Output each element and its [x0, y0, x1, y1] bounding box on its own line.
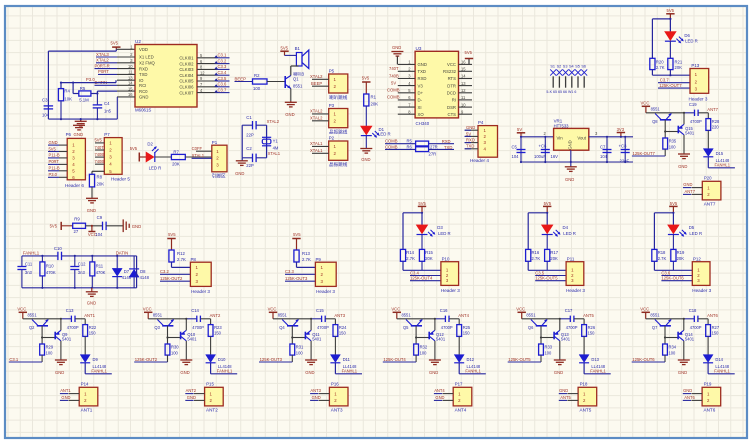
wire to R9: [61, 225, 72, 227]
junction dots (ANT3): [310, 318, 312, 320]
svg-text:CLKI07: CLKI07: [179, 90, 194, 95]
wire R1 to D1: [365, 106, 367, 126]
svg-text:5401: 5401: [62, 337, 72, 342]
wires P17 pins: [443, 393, 454, 395]
diode D10 LL4148: [206, 355, 216, 363]
resistor R7: [171, 154, 185, 159]
svg-text:RCI: RCI: [139, 83, 146, 88]
svg-text:125K-OUT2: 125K-OUT2: [160, 276, 183, 281]
svg-text:10K: 10K: [64, 97, 72, 102]
svg-text:P4: P4: [478, 120, 484, 125]
svg-text:P15: P15: [206, 382, 214, 387]
junction dots (ANT7): [683, 112, 685, 114]
svg-text:VCC: VCC: [516, 307, 525, 312]
svg-text:DSR: DSR: [447, 105, 456, 110]
svg-text:C3.7: C3.7: [660, 78, 670, 83]
wire resistors to header (D5): [653, 261, 655, 270]
svg-text:XTAL1: XTAL1: [192, 153, 205, 158]
ground (ANT4): [429, 359, 441, 361]
svg-text:GND: GND: [61, 395, 70, 400]
wire Q9 collector: [60, 319, 62, 331]
svg-text:GND: GND: [180, 370, 189, 375]
svg-text:2.7K: 2.7K: [177, 257, 186, 262]
svg-text:Q5: Q5: [403, 325, 409, 330]
svg-text:RI: RI: [452, 98, 456, 103]
resistor R9: [73, 223, 86, 228]
svg-text:DTR: DTR: [447, 83, 456, 88]
capacitor C19: [684, 112, 694, 114]
svg-text:100: 100: [296, 350, 304, 355]
svg-text:150: 150: [214, 331, 222, 336]
svg-text:P11: P11: [567, 256, 575, 261]
svg-text:Q8: Q8: [652, 119, 658, 124]
wire Q2 base: [41, 326, 43, 344]
svg-text:Header 3: Header 3: [316, 289, 335, 294]
svg-text:GND: GND: [466, 125, 475, 130]
svg-text:GND: GND: [565, 177, 574, 182]
junction dot (D6): [669, 18, 671, 20]
capacitor C14: [186, 318, 196, 320]
resistor R30: [165, 344, 170, 355]
diode D15 LL4148: [703, 149, 713, 157]
svg-text:C14: C14: [191, 308, 199, 313]
svg-text:125K-OUT3: 125K-OUT3: [285, 276, 308, 281]
wire D5 to R19: [672, 234, 674, 249]
svg-text:ANT4: ANT4: [458, 313, 469, 318]
svg-text:P19: P19: [704, 382, 712, 387]
svg-text:VCC: VCC: [641, 101, 650, 106]
svg-text:C3.4: C3.4: [410, 270, 420, 275]
svg-text:P13: P13: [691, 63, 699, 68]
svg-text:2.7K: 2.7K: [532, 256, 541, 261]
svg-text:100: 100: [669, 350, 677, 355]
svg-text:R5: R5: [407, 139, 413, 144]
svg-text:470K: 470K: [46, 270, 56, 275]
svg-text:ANT1: ANT1: [60, 388, 71, 393]
svg-text:D3: D3: [437, 225, 443, 230]
diode D9 LL4148: [80, 355, 90, 363]
svg-text:GND: GND: [361, 157, 370, 162]
svg-text:XTAL1: XTAL1: [268, 151, 281, 156]
svg-text:15: 15: [128, 86, 133, 91]
wire bottom rail U2: [48, 118, 117, 120]
svg-text:U2: U2: [135, 39, 141, 44]
svg-text:5V5: 5V5: [281, 46, 289, 51]
wire VCC rail (ANT4): [397, 318, 435, 320]
svg-text:5-K 65 65 66 W1 6: 5-K 65 65 66 W1 6: [546, 90, 576, 94]
junction dots (ANT1): [60, 318, 62, 320]
diode D11 LL4148: [330, 355, 340, 363]
svg-text:Header 3: Header 3: [441, 288, 460, 293]
resistor R4: [58, 89, 63, 101]
resistor R18: [652, 249, 657, 261]
svg-text:C3.3: C3.3: [218, 64, 228, 69]
svg-text:5V5: 5V5: [667, 8, 675, 13]
power 5V5 (U3 VCC): [468, 59, 470, 65]
svg-text:P0RT: P0RT: [49, 159, 60, 164]
wire filter right edge: [136, 256, 138, 288]
svg-text:R15: R15: [425, 250, 433, 255]
resistor R11: [91, 256, 93, 262]
resistor R23: [210, 319, 212, 325]
svg-text:740T: 740T: [389, 66, 399, 71]
svg-text:R10: R10: [46, 263, 54, 268]
svg-text:1n5: 1n5: [104, 109, 112, 114]
svg-text:150: 150: [463, 331, 471, 336]
wire input (ANT3): [291, 355, 293, 362]
svg-text:GND: GND: [429, 370, 438, 375]
power VCC tap: [91, 226, 93, 232]
svg-text:+C8: +C8: [619, 143, 627, 148]
svg-text:Y1: Y1: [273, 138, 279, 143]
svg-text:RXD: RXD: [139, 66, 148, 71]
svg-text:20K: 20K: [172, 162, 180, 167]
ic U2: [135, 45, 197, 108]
svg-text:8551: 8551: [650, 313, 660, 318]
svg-text:R35: R35: [669, 139, 677, 144]
wire Q14 collector: [683, 319, 685, 331]
svg-text:4700P: 4700P: [566, 325, 578, 330]
wire to U2 GND pin16: [116, 97, 118, 119]
svg-text:FANHL1: FANHL1: [342, 369, 358, 374]
svg-text:C1: C1: [246, 115, 252, 120]
svg-text:S3: S3: [563, 64, 568, 68]
diode D7: [116, 256, 118, 269]
wire D4 to R17: [546, 234, 548, 249]
svg-text:ANT2: ANT2: [206, 407, 218, 412]
svg-text:XTAL2: XTAL2: [310, 116, 323, 121]
VR1 ground rail: [521, 161, 633, 163]
svg-text:100: 100: [420, 350, 428, 355]
svg-text:5401: 5401: [187, 337, 197, 342]
wire R22 to D9: [84, 336, 86, 354]
wire Q3 base: [167, 326, 169, 344]
svg-text:Vin: Vin: [557, 136, 564, 141]
svg-text:U3: U3: [416, 46, 422, 51]
svg-text:GND: GND: [74, 132, 84, 137]
ground (crystal): [241, 158, 243, 161]
svg-text:X2 FMQ: X2 FMQ: [139, 61, 156, 66]
svg-text:Header 6: Header 6: [65, 183, 84, 188]
svg-text:4700P: 4700P: [67, 325, 79, 330]
capacitor C7: [606, 137, 608, 162]
transistor Q4: [287, 325, 298, 327]
capacitor C17: [560, 318, 570, 320]
svg-text:引脚区: 引脚区: [212, 173, 226, 180]
wire VCC rail (ANT6): [646, 318, 684, 320]
svg-text:C3.5: C3.5: [535, 270, 545, 275]
svg-text:R12: R12: [177, 251, 185, 256]
resistor R35: [663, 138, 668, 149]
svg-text:FANHL1: FANHL1: [590, 369, 606, 374]
svg-text:740B: 740B: [95, 159, 105, 164]
svg-text:Q6: Q6: [528, 325, 534, 330]
svg-text:R30: R30: [171, 345, 179, 350]
svg-text:125K-OUT4: 125K-OUT4: [383, 357, 406, 362]
svg-text:GND: GND: [559, 388, 568, 393]
U3 right pins: [459, 63, 473, 65]
led D4: [542, 225, 553, 234]
resistor R29: [40, 344, 45, 355]
svg-text:14: 14: [128, 81, 133, 86]
wire R24 to D11: [334, 336, 336, 354]
transistor Q13: [553, 332, 555, 340]
svg-text:5V: 5V: [466, 131, 471, 136]
diode D13 LL4148: [579, 355, 589, 363]
svg-text:R33: R33: [545, 345, 553, 350]
wire D14 out: [707, 363, 709, 374]
svg-text:5V5: 5V5: [293, 232, 301, 237]
svg-text:TXD: TXD: [139, 72, 148, 77]
led D5: [668, 225, 679, 234]
svg-text:20K: 20K: [97, 182, 105, 187]
svg-text:C11: C11: [25, 261, 33, 266]
svg-text:D2: D2: [147, 141, 153, 146]
svg-text:14: 14: [461, 74, 466, 79]
svg-text:P16: P16: [331, 382, 339, 387]
svg-text:5401: 5401: [685, 131, 695, 136]
svg-text:20K: 20K: [425, 256, 433, 261]
svg-text:5V5: 5V5: [95, 138, 103, 143]
svg-text:GND: GND: [418, 62, 427, 67]
svg-text:Header 3: Header 3: [191, 289, 210, 294]
svg-text:C3.6: C3.6: [218, 82, 228, 87]
wire R9 to C9: [86, 225, 103, 227]
pin S6: [583, 76, 585, 87]
svg-text:11: 11: [128, 70, 133, 75]
svg-text:VCC: VCC: [447, 62, 456, 67]
svg-text:C18: C18: [689, 308, 697, 313]
svg-text:V3: V3: [418, 83, 424, 88]
svg-text:ANT6: ANT6: [704, 407, 716, 412]
svg-text:GND: GND: [392, 45, 401, 50]
svg-text:CLKI06: CLKI06: [179, 85, 194, 90]
svg-text:5V: 5V: [391, 80, 396, 85]
svg-text:R25: R25: [463, 325, 471, 330]
wire Q7 base: [664, 326, 666, 344]
svg-text:RXD: RXD: [466, 138, 475, 143]
svg-text:FANHL1: FANHL1: [715, 163, 731, 168]
svg-text:GND: GND: [678, 370, 687, 375]
wire C9 to ground: [106, 225, 123, 227]
svg-text:5V5: 5V5: [130, 146, 138, 151]
svg-text:ANT6: ANT6: [707, 313, 718, 318]
ground (P6): [73, 124, 85, 126]
svg-text:GND: GND: [312, 395, 321, 400]
svg-text:LED R: LED R: [149, 165, 162, 170]
svg-text:125K-OUT5: 125K-OUT5: [535, 276, 558, 281]
svg-text:4148: 4148: [140, 275, 150, 280]
wire split (D5): [653, 213, 655, 250]
svg-text:GND: GND: [235, 171, 244, 176]
junction dots U2 osc: [60, 82, 62, 84]
svg-text:GND: GND: [305, 370, 314, 375]
resistor R27: [707, 319, 709, 325]
junction dot R9 row: [91, 225, 93, 227]
wire 5V5 rail to C3: [115, 49, 117, 51]
svg-text:GND: GND: [87, 300, 96, 305]
wire Q12 collector: [434, 319, 436, 331]
svg-text:RS232: RS232: [443, 69, 457, 74]
svg-text:27R: 27R: [430, 144, 438, 149]
svg-text:D11: D11: [343, 357, 351, 362]
svg-text:R24: R24: [339, 325, 347, 330]
svg-text:27: 27: [74, 229, 79, 234]
wire Q11 emitter to ground: [310, 341, 312, 360]
wire VCC rail (ANT5): [522, 318, 560, 320]
wire C4 bottom: [96, 108, 98, 119]
svg-text:R21: R21: [675, 59, 683, 64]
connector P6: [67, 138, 85, 179]
svg-text:740B: 740B: [389, 73, 399, 78]
svg-text:D+: D+: [418, 91, 424, 96]
svg-text:ANT5: ANT5: [560, 395, 571, 400]
svg-text:Header 3: Header 3: [566, 288, 585, 293]
svg-text:R34: R34: [669, 345, 677, 350]
pin S3: [565, 76, 567, 87]
svg-text:470K: 470K: [96, 270, 106, 275]
svg-text:TXD: TXD: [418, 69, 427, 74]
transistor Q10: [180, 332, 182, 340]
svg-text:5V5: 5V5: [50, 223, 58, 228]
svg-text:P14: P14: [81, 382, 89, 387]
svg-text:150: 150: [712, 331, 720, 336]
svg-text:125K-OUT2: 125K-OUT2: [135, 357, 158, 362]
svg-text:LED R: LED R: [689, 231, 702, 236]
wire D9 out: [84, 363, 86, 374]
svg-text:晶振跳线: 晶振跳线: [329, 129, 348, 136]
wire Q10 collector: [185, 319, 187, 331]
svg-text:C3.1: C3.1: [9, 357, 19, 362]
wire input (ANT1): [41, 355, 43, 362]
wire R5 left: [72, 83, 74, 94]
led D6: [665, 32, 676, 41]
wire input (ANT4): [415, 355, 417, 362]
transistor Q15: [677, 126, 679, 134]
svg-text:11: 11: [461, 95, 466, 100]
wire split (D6): [651, 19, 653, 58]
wire Q15 emitter to ground: [683, 135, 685, 154]
power 3V3 (VR1 out): [620, 133, 622, 137]
svg-text:5401: 5401: [561, 337, 571, 342]
capacitor C4: [93, 104, 103, 106]
svg-text:S1: S1: [550, 64, 555, 68]
U2 right pins CLKI01-CLKI07: [197, 57, 217, 59]
svg-text:13: 13: [461, 81, 466, 86]
svg-text:Vout: Vout: [577, 136, 586, 141]
svg-text:CLKI02: CLKI02: [179, 61, 194, 66]
svg-text:GND: GND: [435, 395, 444, 400]
svg-text:R28: R28: [712, 119, 720, 124]
svg-text:104: 104: [600, 154, 608, 159]
svg-text:D-: D-: [418, 98, 423, 103]
svg-text:R22: R22: [89, 325, 97, 330]
wire Q14 emitter to ground: [683, 341, 685, 360]
svg-text:C3.7: C3.7: [218, 87, 228, 92]
svg-text:LED R: LED R: [438, 231, 451, 236]
svg-text:5401: 5401: [685, 337, 695, 342]
svg-text:ANT7: ANT7: [685, 189, 696, 194]
svg-text:R13: R13: [302, 251, 310, 256]
capacitor C11: [21, 256, 23, 267]
wire VCC rail (ANT2): [148, 318, 186, 320]
wire R8 to ground: [91, 187, 93, 198]
svg-text:10: 10: [128, 64, 133, 69]
svg-text:16: 16: [461, 60, 466, 65]
wire D15 out: [707, 157, 709, 168]
svg-text:R31: R31: [296, 345, 304, 350]
svg-text:R26: R26: [588, 325, 596, 330]
svg-text:100: 100: [669, 144, 677, 149]
resistor R8: [92, 170, 104, 172]
svg-text:R29: R29: [46, 345, 54, 350]
svg-text:C15: C15: [316, 308, 324, 313]
ground (ANT7): [678, 153, 690, 155]
svg-text:5V5: 5V5: [418, 201, 426, 206]
svg-text:S4: S4: [569, 64, 574, 68]
svg-text:BEEP: BEEP: [311, 81, 322, 86]
svg-text:D13: D13: [591, 357, 599, 362]
svg-text:C3.4: C3.4: [218, 70, 228, 75]
svg-text:2.7K: 2.7K: [302, 257, 311, 262]
capacitor C16: [435, 318, 445, 320]
ground (ANT2): [180, 359, 192, 361]
svg-text:740B: 740B: [95, 152, 105, 157]
wire speaker to Q1 collector: [291, 65, 299, 67]
resistor R13: [294, 250, 299, 262]
svg-text:104: 104: [95, 232, 103, 237]
wire D12 out: [458, 363, 460, 374]
svg-text:R8: R8: [97, 175, 103, 180]
svg-text:3V3: 3V3: [617, 127, 625, 132]
ground (ANT3): [305, 359, 317, 361]
svg-text:R7: R7: [173, 150, 179, 155]
svg-text:喇叭跳线: 喇叭跳线: [329, 94, 348, 101]
wire D11 out: [334, 363, 336, 374]
ground (Q1): [290, 101, 292, 102]
svg-text:ANT7: ANT7: [707, 107, 718, 112]
wire Q6 base: [540, 326, 542, 344]
wire Q9 emitter to ground: [60, 341, 62, 360]
svg-text:R14: R14: [406, 250, 414, 255]
svg-text:150: 150: [588, 331, 596, 336]
svg-text:GND: GND: [87, 208, 96, 213]
svg-text:VCC: VCC: [17, 307, 26, 312]
svg-text:D14: D14: [715, 357, 723, 362]
svg-text:GND: GND: [187, 395, 196, 400]
svg-text:D8: D8: [140, 269, 146, 274]
svg-text:20K: 20K: [675, 65, 683, 70]
svg-text:COMB: COMB: [387, 88, 400, 93]
svg-text:CLKI01: CLKI01: [179, 56, 194, 61]
svg-text:20K: 20K: [677, 256, 685, 261]
svg-text:16V: 16V: [551, 154, 559, 159]
wire Q13 emitter to ground: [559, 341, 561, 360]
svg-text:P5: P5: [329, 69, 335, 74]
svg-text:CTS: CTS: [448, 112, 457, 117]
svg-text:5V5: 5V5: [49, 146, 57, 151]
ground (ANT5): [554, 359, 566, 361]
svg-text:Header 5: Header 5: [111, 176, 130, 181]
svg-text:XI: XI: [418, 105, 422, 110]
wire Q8 base: [664, 120, 666, 138]
wire input (ANT2): [167, 355, 169, 362]
svg-text:100: 100: [171, 350, 179, 355]
transistor Q3: [162, 325, 173, 327]
svg-text:P9: P9: [316, 257, 322, 262]
svg-text:P0RT-R: P0RT-R: [95, 63, 110, 68]
svg-text:DCD: DCD: [447, 91, 456, 96]
